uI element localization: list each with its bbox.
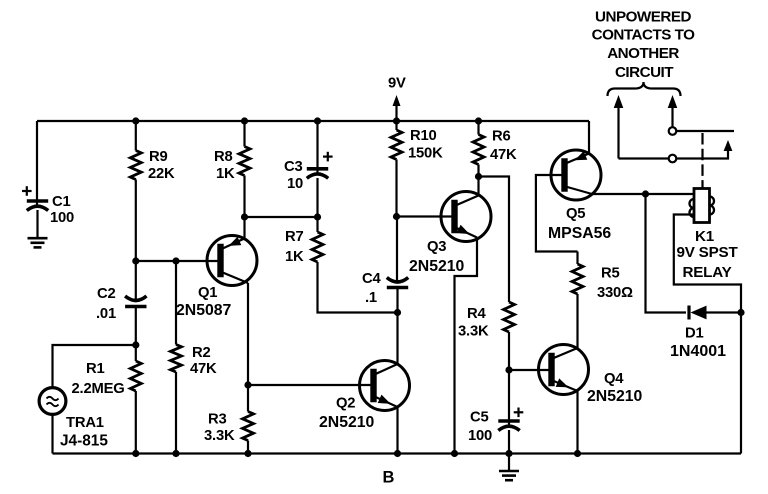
label Q1 [176,285,232,319]
svg-text:150K: 150K [408,146,443,162]
label C3 [284,159,303,192]
wire to R2 [175,261,177,345]
wire node A to C2 [135,261,137,302]
node top rail R8 [241,117,248,124]
node Q4 emitter bottom [574,450,581,457]
transistor Q4 collector lead [553,294,578,359]
node relay D1 junction [642,190,649,197]
svg-text:C3: C3 [284,159,303,175]
svg-text:CONTACTS TO: CONTACTS TO [592,27,695,44]
wire R1 to ground rail [135,391,137,454]
node Q1 emitter junction [241,213,248,220]
svg-text:9V: 9V [388,76,406,92]
wire node B to R1 [135,345,137,361]
svg-text:C2: C2 [97,286,116,302]
node R2 bottom [172,450,179,457]
wire Q3 collector to R4 [479,177,510,303]
svg-text:22K: 22K [148,166,175,182]
node R1 bottom [132,450,139,457]
resistor R3 3.3K [243,412,254,441]
label unpowered contacts [592,9,695,82]
svg-text:UNPOWERED: UNPOWERED [595,9,691,26]
resistor R1 2.2MEG [130,361,141,391]
wire bottom ground rail [53,452,742,454]
wire R5 top [576,252,578,265]
node top rail 9V [393,117,400,124]
contact circle upper [669,127,677,135]
node B junction [132,341,139,348]
capacitor C5 100uF electrolytic [498,408,523,431]
svg-text:2N5210: 2N5210 [409,258,465,275]
ground below C5 [499,471,519,480]
wire contact lower left [619,157,669,159]
wire top 9V supply rail [37,120,589,122]
label R8 [214,149,235,182]
wire R9 to node A [135,180,137,262]
node top rail R9 [132,117,139,124]
label B [383,469,395,487]
transistor Q2 collector lead [375,313,398,375]
label C1 [50,194,74,226]
svg-text:ANOTHER: ANOTHER [607,45,679,62]
svg-text:R6: R6 [492,129,511,145]
svg-text:R8: R8 [214,149,233,165]
wire to Q2 base [248,384,372,386]
resistor R4 3.3K [504,302,515,332]
svg-text:1K: 1K [216,166,235,182]
svg-text:D1: D1 [685,326,704,342]
wire node A to Q1 base [136,260,221,262]
svg-text:Q2: Q2 [336,396,355,412]
capacitor C1 100uF electrolytic [22,186,48,210]
node R4 C5 Q4base [505,366,512,373]
wire rail to R8 [243,121,245,147]
svg-text:3.3K: 3.3K [204,428,235,444]
label Q2 [319,396,375,432]
wire rail to C3 [316,121,318,174]
label Q4 [587,371,643,405]
svg-text:C5: C5 [470,410,489,426]
svg-text:R4: R4 [467,306,486,322]
transistor Q5 emitter lead [566,151,590,163]
wire C4 to Q2 collector node [396,289,398,313]
transducer TRA1 J4-815 [39,388,66,415]
wire rail corner to Q5 emitter [588,121,590,154]
contact circle lower [669,155,677,163]
svg-text:100: 100 [50,210,74,226]
wire rail to R6 [477,121,479,135]
capacitor C3 10uF electrolytic [307,152,333,179]
diode D1 1N4001 [689,306,741,320]
wire R10 to Q3 base node [395,160,397,217]
label R4 [458,306,489,340]
label C5 [468,410,492,445]
transistor Q5 collector lead [566,187,695,195]
svg-text:RELAY: RELAY [682,264,731,281]
transistor Q1 emitter lead [222,217,245,249]
svg-text:47K: 47K [190,361,217,377]
svg-text:2N5210: 2N5210 [319,414,375,431]
wire rail to R10 [395,121,397,130]
svg-text:10: 10 [287,176,303,192]
wire rail to R9 [135,121,137,151]
svg-text:R3: R3 [208,412,227,428]
svg-text:R10: R10 [410,128,437,144]
wire C5 to rail [508,430,510,454]
svg-text:3.3K: 3.3K [458,324,489,340]
node R2 top [172,257,179,264]
wire to Q3 base [397,215,454,217]
wire contact lower right [677,140,733,159]
wire C3 to node [316,178,318,217]
label C2 [96,286,116,322]
transistor Q4 2N5210 body [539,345,589,395]
node Q2 emitter bottom [394,450,401,457]
wire dashed linkage [701,133,703,188]
label C4 [362,271,381,306]
node top rail R6 [475,117,482,124]
wire C2 to node B [135,308,137,345]
transistor Q3 emitter lead [455,225,478,454]
label R2 [190,345,217,377]
wire R6 to collector node [477,165,479,177]
resistor R2 47K [171,345,182,373]
transistor Q5 MPSA56 body [551,150,601,200]
svg-text:2.2MEG: 2.2MEG [72,381,125,397]
node C4 R7 Q2 junction [394,309,401,316]
svg-text:1K: 1K [285,249,304,265]
wire to Q4 base [509,369,550,371]
resistor R9 22K [130,151,141,180]
transistor Q1 2N5087 body [207,236,257,286]
wire node to D1 [646,194,687,313]
capacitor C4 .1 [387,278,408,288]
transistor Q5 base lead [536,175,578,252]
label R5 [597,266,633,302]
label R1 [72,361,125,397]
node top rail C3 [314,117,321,124]
svg-text:B: B [383,469,395,487]
svg-text:R7: R7 [285,229,304,245]
wire contact upper arrow [668,95,678,127]
transistor Q1 base lead [221,260,223,262]
node C5 bottom [505,450,512,457]
label R3 [204,412,235,445]
wire node to C5 [508,370,510,426]
label R7 [285,229,304,265]
svg-text:R2: R2 [192,345,211,361]
wire right drop to rail [740,313,742,454]
wire left drop to C1 [36,121,38,206]
label TRA1 [60,415,108,450]
node A junction [132,257,139,264]
transistor Q2 2N5210 body [360,361,410,411]
label 9V [388,76,406,92]
svg-text:CIRCUIT: CIRCUIT [615,64,674,81]
node C3 R7 junction [314,213,321,220]
ground below C1 [28,238,48,247]
svg-text:Q3: Q3 [427,239,446,255]
label Q5 [548,206,611,242]
svg-text:K1: K1 [695,228,715,245]
svg-text:9V SPST: 9V SPST [676,244,738,261]
wire C1 to ground [36,210,38,237]
node R3 bottom [244,450,251,457]
arrow 9V supply [393,95,401,106]
node Q1 collector junction [244,381,251,388]
svg-text:2N5087: 2N5087 [176,302,232,319]
resistor R10 150K [391,130,402,160]
transistor Q3 2N5210 body [441,192,491,242]
wire R4 to Q4 base node [508,332,510,370]
node Q3 emitter bottom [451,450,458,457]
svg-text:R1: R1 [86,361,105,377]
svg-text:MPSA56: MPSA56 [548,225,611,242]
svg-text:.01: .01 [96,306,116,322]
label K1 [676,228,738,281]
svg-text:47K: 47K [490,147,517,163]
svg-text:2N5210: 2N5210 [587,388,643,405]
svg-text:Q4: Q4 [604,371,624,387]
svg-text:330Ω: 330Ω [597,285,633,301]
wire TRA1 bottom [51,414,53,453]
wire TRA1 top [53,345,136,388]
wire ground stub [508,454,510,471]
relay K1 coil [690,189,715,223]
label D1 [670,326,726,361]
resistor R6 47K [473,135,484,165]
svg-text:J4-815: J4-815 [60,433,108,450]
svg-text:.1: .1 [365,290,377,306]
node R10 C4 Q3base [393,213,400,220]
svg-text:C4: C4 [362,271,381,287]
transistor Q3 collector lead [456,177,479,206]
transistor Q4 emitter lead [553,378,578,453]
node D1 right junction [737,309,744,316]
transistor Q1 collector lead [222,272,249,385]
node Q3 collector junction [475,173,482,180]
svg-text:Q5: Q5 [566,206,585,222]
label R9 [148,149,175,182]
svg-text:R5: R5 [601,266,620,282]
wire R7 to C4 node [318,262,398,313]
transistor Q2 emitter lead [375,395,398,454]
resistor R8 1K [239,147,250,176]
wire R2 to ground rail [175,372,177,454]
svg-text:100: 100 [468,428,492,444]
svg-text:C1: C1 [52,194,71,210]
capacitor C2 .01 [125,296,146,307]
wire node to R7 [316,217,318,232]
resistor R5 330 [572,264,583,294]
wire contact upper right [677,130,735,132]
wire node to R3 [247,385,249,412]
svg-text:Q1: Q1 [198,285,217,301]
label R6 [490,129,517,164]
wire node to C4 [396,217,398,284]
wire contact left arrow [614,95,624,159]
wire R3 to rail [247,441,249,454]
wire R8 to emitter node [243,176,245,218]
label Q3 [409,239,465,275]
wire relay lower terminal [674,215,741,313]
wire 9V stub [395,105,397,122]
svg-text:TRA1: TRA1 [66,415,104,431]
brace unpowered contacts [608,82,681,96]
label R10 [408,128,443,162]
svg-text:R9: R9 [149,149,168,165]
svg-text:1N4001: 1N4001 [670,343,726,360]
wire emitter node to C3 node [245,216,318,218]
resistor R7 1K [312,232,323,262]
